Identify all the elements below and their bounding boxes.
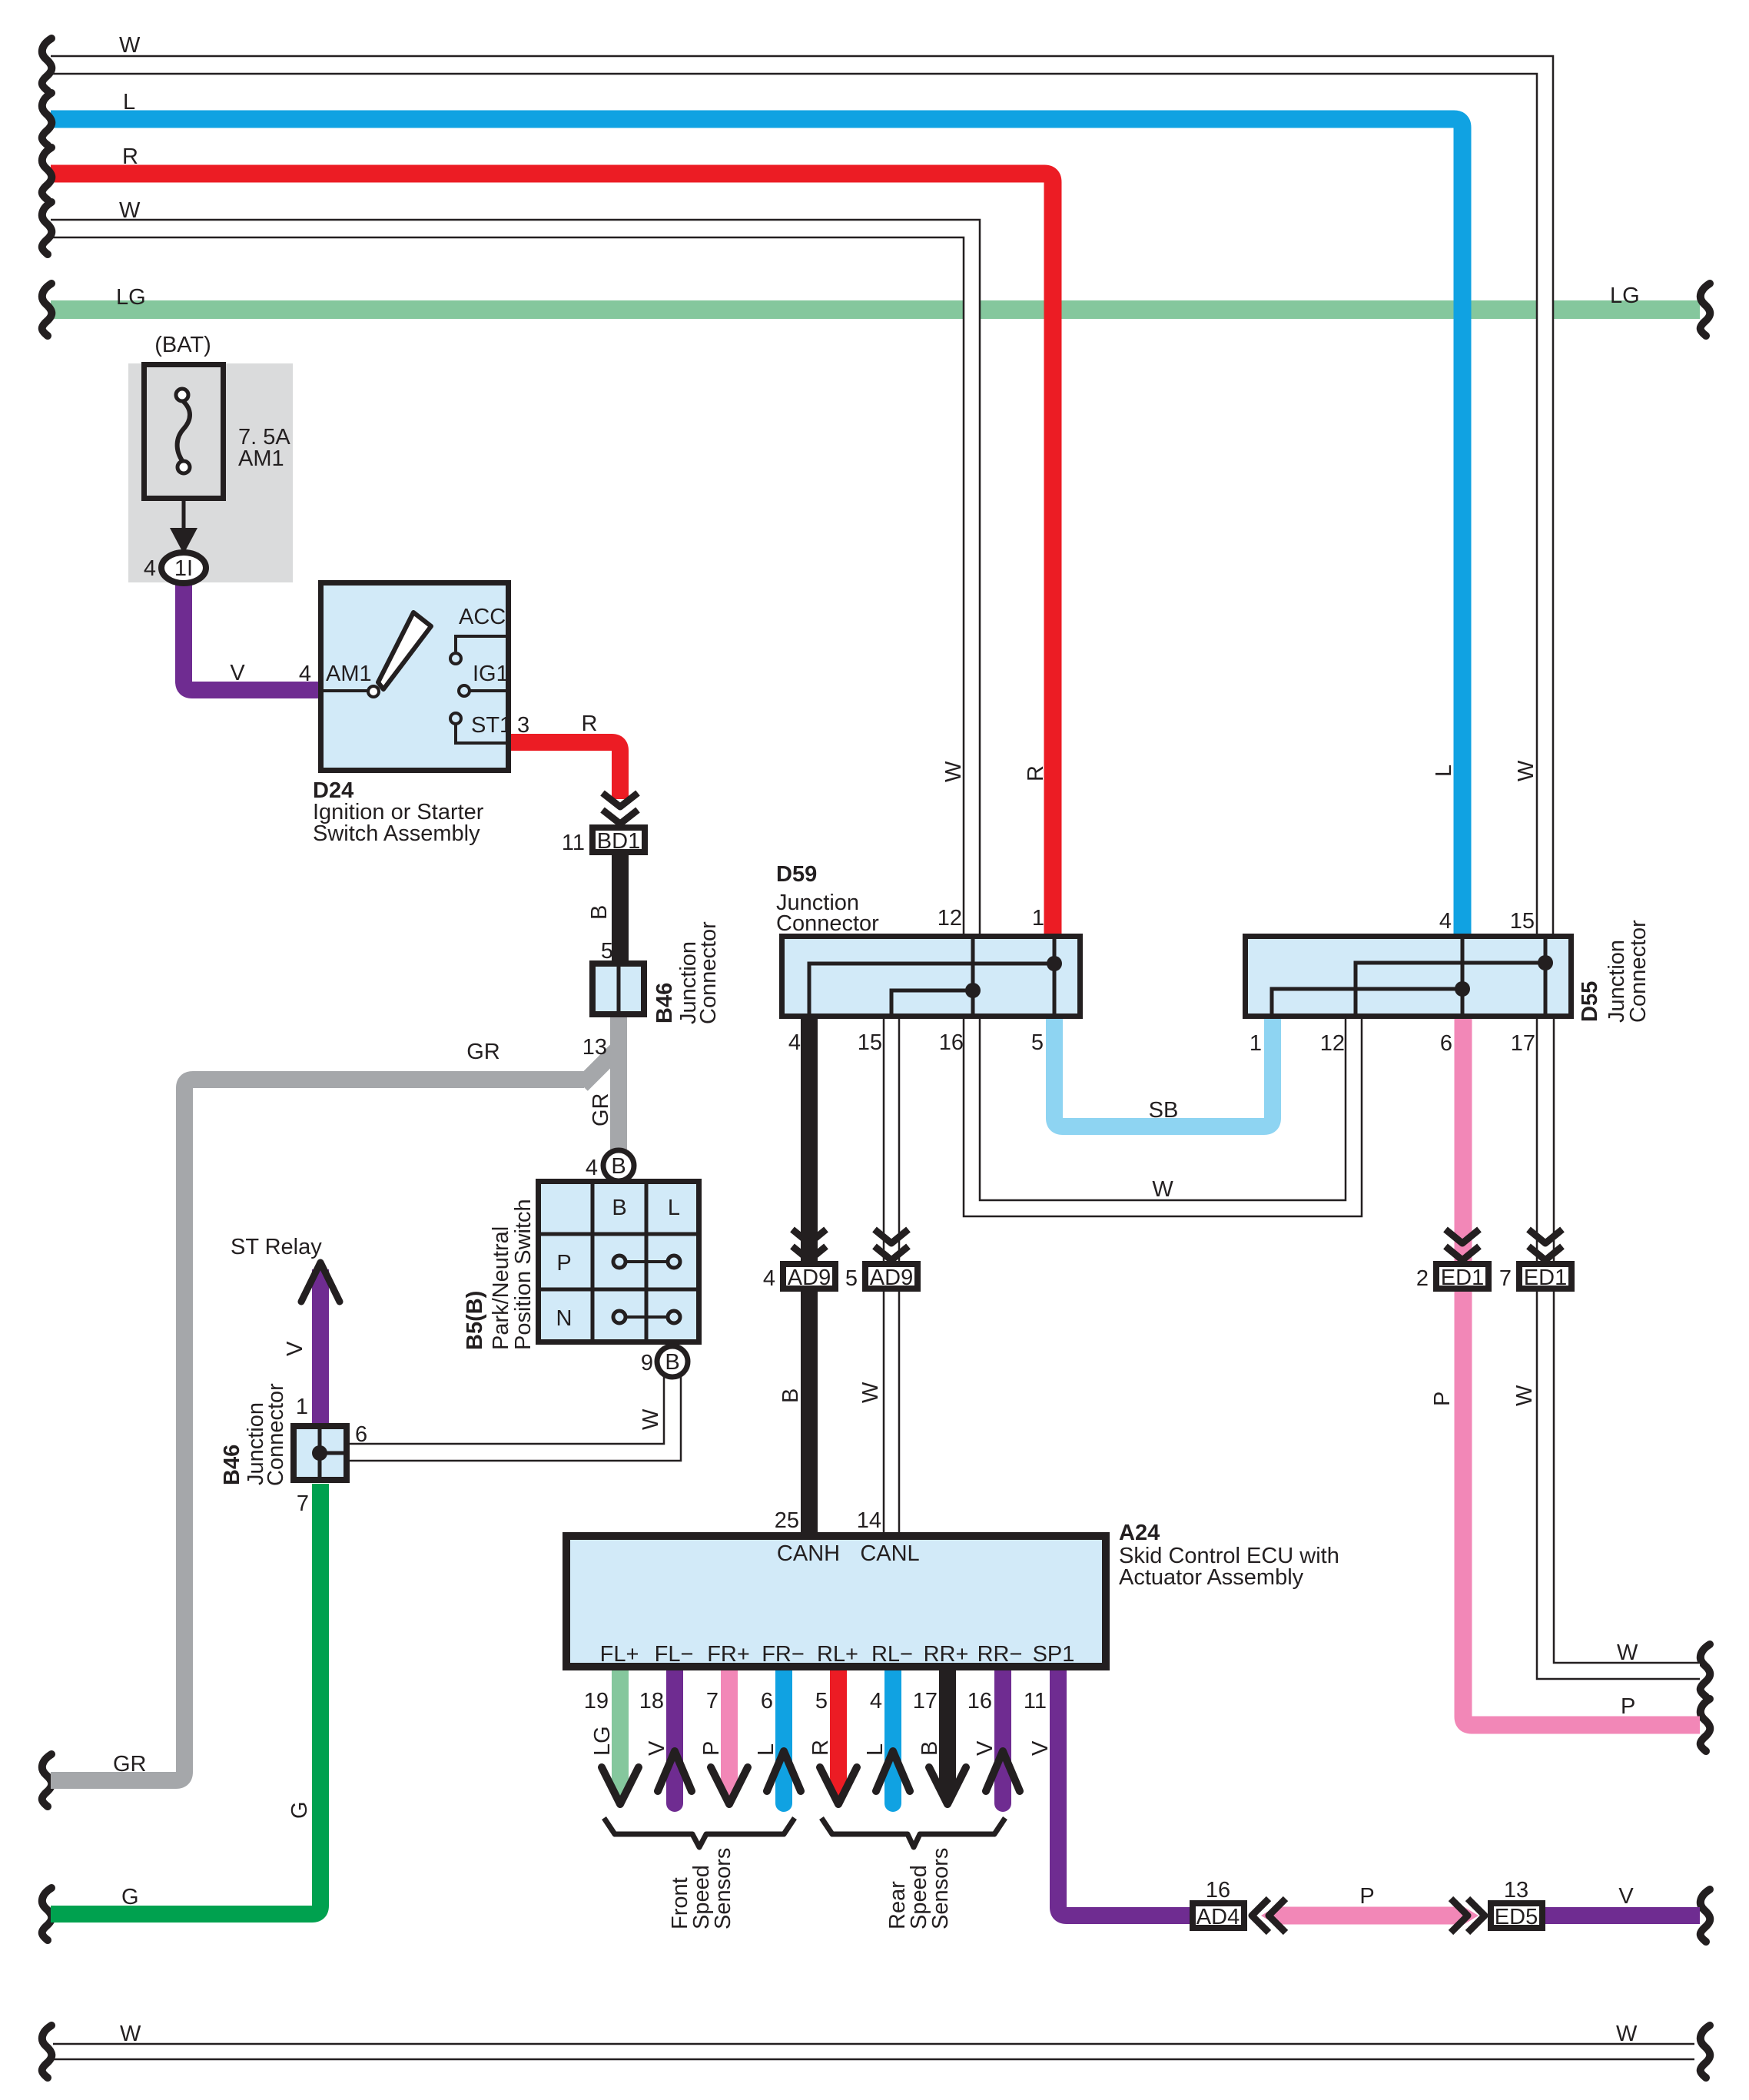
svg-text:16: 16 <box>1206 1878 1230 1903</box>
wire L bus (blue, turns down to D55 pin 4) <box>51 119 1462 934</box>
svg-text:P: P <box>1621 1694 1635 1719</box>
wire B BD1 to B46 pin5 <box>612 855 629 963</box>
wire W bottom bus (white, full width) <box>53 2044 1694 2059</box>
svg-text:ED1: ED1 <box>1441 1266 1484 1290</box>
svg-text:V: V <box>283 1341 307 1356</box>
svg-text:AD9: AD9 <box>870 1266 913 1290</box>
connector box AD9 (pin5) <box>865 1264 918 1290</box>
svg-text:4: 4 <box>1439 909 1452 934</box>
svg-text:13: 13 <box>1504 1878 1528 1903</box>
svg-text:R: R <box>122 144 138 169</box>
svg-text:FL+: FL+ <box>600 1642 639 1667</box>
wire R A24 pin5 RL+ <box>830 1670 847 1792</box>
break symbol left W top <box>42 38 52 91</box>
break symbol left LG <box>42 284 52 336</box>
svg-text:AD4: AD4 <box>1196 1905 1240 1929</box>
svg-text:W: W <box>639 1408 663 1430</box>
contacts N row <box>626 1315 668 1319</box>
svg-text:ACC: ACC <box>459 605 506 629</box>
arrow up FR- <box>767 1751 801 1791</box>
wire V B46 pin1 up to ST relay arrow <box>312 1269 329 1423</box>
svg-text:Connector: Connector <box>696 921 721 1024</box>
park/neutral switch B5(B) pin4 circle B <box>603 1150 634 1181</box>
svg-text:18: 18 <box>639 1689 664 1714</box>
svg-text:4: 4 <box>144 556 156 581</box>
svg-text:P: P <box>1359 1884 1374 1909</box>
wire W B5(B) pin9 down and left to B46 pin6 <box>350 1377 681 1461</box>
break symbol right W bottom <box>1701 2025 1711 2078</box>
ST relay arrowhead <box>301 1262 340 1302</box>
wire P A24 pin7 FR+ <box>721 1670 738 1792</box>
arrow down RR+ (chevron + pointed tip) <box>939 1790 956 1807</box>
connector box ED1 (pin2) <box>1436 1264 1488 1290</box>
fuse AM1 7.5A <box>144 365 224 499</box>
svg-text:5: 5 <box>601 939 613 964</box>
svg-text:1: 1 <box>296 1395 308 1419</box>
svg-text:15: 15 <box>858 1030 882 1055</box>
break symbol left GR <box>42 1754 52 1806</box>
svg-text:4: 4 <box>788 1030 801 1055</box>
svg-text:G: G <box>121 1885 139 1909</box>
chevrons into ED1 pin7 <box>1528 1229 1562 1260</box>
junction connector B46 upper <box>592 960 644 1017</box>
svg-text:Actuator Assembly: Actuator Assembly <box>1119 1565 1304 1590</box>
svg-text:Connector: Connector <box>776 911 879 936</box>
chevrons into AD9 pin4 <box>792 1229 826 1260</box>
svg-text:R: R <box>1024 765 1048 781</box>
svg-text:W: W <box>1616 2022 1638 2046</box>
svg-text:16: 16 <box>939 1030 964 1055</box>
svg-text:V: V <box>1028 1740 1053 1756</box>
svg-text:2: 2 <box>1416 1266 1429 1291</box>
brace front speed sensors <box>604 1818 795 1847</box>
break symbol right P <box>1701 1699 1711 1751</box>
svg-text:11: 11 <box>1024 1689 1047 1714</box>
svg-text:7: 7 <box>706 1689 719 1714</box>
svg-text:L: L <box>754 1743 778 1756</box>
svg-text:ST1: ST1 <box>471 713 512 738</box>
svg-text:16: 16 <box>967 1689 992 1714</box>
svg-text:B46: B46 <box>220 1445 244 1485</box>
svg-text:L: L <box>123 90 135 114</box>
svg-text:4: 4 <box>299 662 311 686</box>
svg-text:W: W <box>941 761 966 782</box>
break symbol right V <box>1701 1889 1711 1942</box>
svg-text:B5(B): B5(B) <box>463 1291 487 1350</box>
D24 switch lever <box>378 612 431 689</box>
wire V A24 pin18 FL- <box>666 1670 683 1803</box>
svg-text:AM1: AM1 <box>326 662 372 686</box>
brace rear speed sensors <box>821 1818 1005 1847</box>
svg-text:R: R <box>582 712 598 736</box>
wire G B46 pin7 down and left to break <box>51 1484 320 1914</box>
park/neutral switch B5(B) pin9 circle B <box>657 1346 688 1377</box>
svg-text:15: 15 <box>1510 909 1535 934</box>
svg-text:RL+: RL+ <box>817 1642 858 1667</box>
svg-text:V: V <box>1618 1884 1634 1909</box>
chevrons into AD9 pin5 <box>874 1229 908 1260</box>
wire V ED5 to right break <box>1545 1907 1700 1924</box>
chevrons into ED5 (pointing right) <box>1451 1899 1485 1932</box>
svg-text:LG: LG <box>1610 284 1640 308</box>
svg-text:RR+: RR+ <box>924 1642 969 1667</box>
arrow up RR- <box>986 1751 1020 1791</box>
svg-text:V: V <box>645 1740 669 1756</box>
wire V A24 pin11 SP1 to AD4 <box>1058 1670 1190 1916</box>
svg-text:B: B <box>611 1154 626 1179</box>
svg-text:D59: D59 <box>776 862 817 887</box>
svg-text:7: 7 <box>1499 1266 1512 1291</box>
svg-text:AM1: AM1 <box>238 446 284 471</box>
svg-text:W: W <box>1617 1641 1638 1665</box>
svg-text:IG1: IG1 <box>473 662 509 686</box>
svg-text:P: P <box>1430 1392 1455 1406</box>
svg-text:W: W <box>120 2022 141 2046</box>
wire B A24 pin17 RR+ <box>939 1670 956 1790</box>
svg-text:W: W <box>1512 1385 1537 1406</box>
arrow up RL- <box>876 1751 910 1791</box>
wire GR branch long run to left break <box>51 1080 584 1780</box>
svg-text:GR: GR <box>589 1093 613 1127</box>
svg-text:R: R <box>808 1740 833 1756</box>
svg-text:G: G <box>287 1801 312 1819</box>
svg-text:ED5: ED5 <box>1495 1905 1538 1929</box>
svg-text:5: 5 <box>1031 1030 1044 1055</box>
svg-text:Sensors: Sensors <box>928 1848 953 1929</box>
svg-text:12: 12 <box>938 906 962 931</box>
svg-text:1I: 1I <box>174 556 193 581</box>
svg-text:17: 17 <box>1511 1031 1535 1056</box>
svg-text:N: N <box>556 1306 572 1331</box>
svg-text:4: 4 <box>586 1156 598 1180</box>
svg-text:RR−: RR− <box>977 1642 1023 1667</box>
wire W second bus (white, turns down to D59 pin 12) <box>51 220 980 934</box>
svg-text:B: B <box>612 1196 626 1220</box>
svg-text:L: L <box>1432 765 1456 777</box>
svg-text:11: 11 <box>562 831 585 855</box>
svg-text:ST Relay: ST Relay <box>231 1235 322 1259</box>
svg-text:FR−: FR− <box>762 1642 805 1667</box>
wire R D24 ST1 pin3 to BD1 <box>511 742 620 799</box>
wire L A24 pin4 RL- <box>884 1670 901 1803</box>
svg-text:BD1: BD1 <box>597 829 640 854</box>
svg-text:B: B <box>918 1741 942 1756</box>
chevrons into AD4 (pointing left) <box>1252 1899 1286 1932</box>
svg-text:25: 25 <box>775 1508 799 1533</box>
svg-text:Park/Neutral: Park/Neutral <box>489 1226 513 1350</box>
wire LG A24 pin19 FL+ <box>612 1670 629 1792</box>
svg-text:5: 5 <box>845 1266 858 1291</box>
connector box ED1 (pin7) <box>1519 1264 1571 1290</box>
svg-text:V: V <box>973 1740 997 1756</box>
svg-text:1: 1 <box>1250 1031 1262 1056</box>
park/neutral position switch B5(B) table <box>536 1179 702 1345</box>
svg-text:(BAT): (BAT) <box>154 333 211 357</box>
svg-text:5: 5 <box>815 1689 828 1714</box>
svg-text:W: W <box>858 1382 883 1403</box>
svg-text:B: B <box>587 905 612 920</box>
contacts P row <box>626 1260 668 1263</box>
wire LG bus (light green, full width) <box>51 300 1700 319</box>
arrow down RL+ <box>820 1767 857 1804</box>
svg-text:7: 7 <box>297 1491 309 1516</box>
svg-text:GR: GR <box>466 1040 500 1064</box>
connector box BD1 <box>592 828 645 854</box>
svg-text:SB: SB <box>1149 1098 1179 1123</box>
connector oval 1I <box>161 552 206 583</box>
svg-text:ED1: ED1 <box>1524 1266 1567 1290</box>
junction connector D55 <box>1246 934 1571 1019</box>
svg-text:P: P <box>699 1741 724 1756</box>
svg-text:B46: B46 <box>652 983 677 1023</box>
svg-text:B: B <box>778 1388 803 1403</box>
D24 IG1 contact <box>459 685 470 696</box>
svg-text:Position Switch: Position Switch <box>511 1199 536 1350</box>
svg-text:17: 17 <box>913 1689 938 1714</box>
wire P D55 pin6 down and right to break <box>1463 1019 1700 1725</box>
chevrons into BD1 <box>602 793 638 824</box>
svg-text:AD9: AD9 <box>788 1266 831 1290</box>
arrow down FR+ <box>711 1767 748 1804</box>
wire B D59 pin4 down to A24 pin25 CANH <box>801 1019 818 1534</box>
break symbol right W mid <box>1701 1644 1711 1697</box>
svg-text:W: W <box>119 198 141 223</box>
svg-text:W: W <box>1514 760 1538 781</box>
arrow down FL+ <box>602 1767 639 1804</box>
pink arrow tip right <box>1463 1906 1479 1925</box>
wire W bus top (white, turns down to D55 pin 15) <box>51 56 1553 934</box>
svg-text:1: 1 <box>1032 906 1044 931</box>
svg-text:V: V <box>230 661 245 685</box>
svg-text:W: W <box>1152 1177 1173 1202</box>
svg-text:9: 9 <box>641 1351 653 1375</box>
break symbol left W bottom <box>42 2025 52 2078</box>
svg-text:FR+: FR+ <box>707 1642 750 1667</box>
svg-text:Connector: Connector <box>1626 920 1651 1023</box>
connector box ED5 <box>1491 1903 1542 1929</box>
break symbol left L <box>42 93 52 145</box>
svg-text:6: 6 <box>1440 1031 1452 1056</box>
pink arrow tip left <box>1261 1906 1276 1925</box>
wire W D55 pin17 down and right to break <box>1537 1019 1700 1679</box>
break symbol left R <box>42 148 52 200</box>
svg-text:6: 6 <box>761 1689 773 1714</box>
D24 ACC contact <box>456 636 511 652</box>
wire GR bevel joint <box>582 1046 621 1085</box>
D24 switch pivot <box>368 686 379 697</box>
junction connector B46 lower <box>294 1423 350 1483</box>
svg-text:CANL: CANL <box>860 1541 919 1566</box>
wire R bus (red, turns down to D59 pin 1) <box>51 174 1053 934</box>
svg-text:12: 12 <box>1320 1031 1345 1056</box>
svg-text:P: P <box>556 1251 571 1276</box>
wire P AD4 to ED5 <box>1276 1907 1464 1925</box>
svg-text:13: 13 <box>582 1035 607 1060</box>
arrow up FL- <box>658 1751 692 1791</box>
wire W D59 pin15 down to A24 pin14 CANL <box>884 1019 899 1534</box>
battery block background <box>128 363 293 582</box>
svg-text:B: B <box>665 1350 679 1375</box>
wire L A24 pin6 FR- <box>775 1670 792 1803</box>
svg-text:4: 4 <box>763 1266 775 1291</box>
D24 ST1 contact <box>450 713 461 724</box>
svg-text:GR: GR <box>113 1752 147 1777</box>
ignition switch D24 box <box>321 583 509 771</box>
break symbol right LG <box>1701 284 1711 336</box>
svg-text:W: W <box>119 33 141 58</box>
svg-text:D55: D55 <box>1578 981 1602 1022</box>
break symbol left G <box>42 1888 52 1940</box>
chevrons into ED1 pin2 <box>1445 1229 1479 1260</box>
arrow fuse to 1I <box>182 501 186 532</box>
wire SB D59 pin5 to D55 pin1 <box>1054 1019 1273 1126</box>
wire V battery to D24 AM1 <box>184 582 318 690</box>
svg-text:FL−: FL− <box>655 1642 694 1667</box>
svg-text:14: 14 <box>857 1508 881 1533</box>
svg-text:Switch Assembly: Switch Assembly <box>313 821 480 846</box>
svg-text:SP1: SP1 <box>1033 1642 1075 1667</box>
svg-text:3: 3 <box>517 713 529 738</box>
svg-text:A24: A24 <box>1119 1521 1160 1545</box>
D24 AM1 contact line <box>318 689 367 692</box>
svg-text:Sensors: Sensors <box>711 1848 735 1929</box>
break symbol left W second <box>42 202 52 254</box>
svg-text:LG: LG <box>590 1726 615 1756</box>
wire V A24 pin16 RR- <box>994 1670 1011 1803</box>
wire W loop D59 pin16 to D55 pin12 <box>964 1019 1362 1216</box>
svg-text:6: 6 <box>355 1422 367 1447</box>
svg-text:CANH: CANH <box>777 1541 840 1566</box>
svg-text:RL−: RL− <box>871 1642 913 1667</box>
svg-text:Connector: Connector <box>264 1383 288 1486</box>
svg-text:L: L <box>863 1743 888 1756</box>
svg-text:LG: LG <box>116 285 146 310</box>
svg-text:L: L <box>668 1196 680 1220</box>
junction connector D59 <box>782 934 1080 1019</box>
svg-text:19: 19 <box>584 1689 609 1714</box>
svg-text:4: 4 <box>870 1689 882 1714</box>
skid control ECU A24 box <box>566 1536 1106 1667</box>
connector box AD9 (pin4) <box>783 1264 835 1290</box>
wire GR B46 pin13 down to B5(B) pin4 <box>610 1017 627 1151</box>
connector box AD4 <box>1193 1903 1244 1929</box>
